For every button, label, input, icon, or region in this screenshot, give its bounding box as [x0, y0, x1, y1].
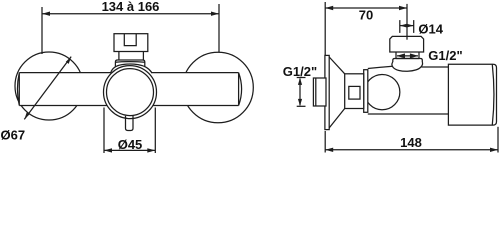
bonnet neck top line — [368, 66, 393, 68]
dimension 148 : left extension line — [324, 131, 326, 153]
svg-text:70: 70 — [359, 7, 373, 22]
G1/2 left: top tick — [297, 77, 306, 79]
tube bottom line left segment — [19, 105, 107, 107]
G1/2 left: vertical double arrow — [299, 79, 301, 106]
Ø45 extension left — [103, 108, 105, 154]
dimension 134 à 166 : right extension line — [218, 4, 220, 52]
svg-text:G1/2": G1/2" — [428, 48, 462, 63]
wall flange disc (side) — [325, 55, 329, 129]
svg-text:134 à 166: 134 à 166 — [102, 0, 160, 14]
tube right end cap — [239, 73, 242, 106]
dimension 134 à 166 : right arrowhead — [211, 12, 219, 16]
svg-text:Ø45: Ø45 — [118, 137, 143, 152]
handle dome / bonnet — [392, 62, 423, 71]
dimension 134 à 166 : left extension line — [41, 7, 43, 54]
svg-text:G1/2": G1/2" — [283, 64, 317, 79]
tube body (white fill occludes flange circles) — [17, 73, 241, 106]
handle head (side) — [390, 36, 424, 52]
wall flange circle left (Ø67) — [15, 52, 83, 120]
handle base lip — [115, 60, 144, 67]
handle head (front) — [114, 34, 148, 52]
handle head notch — [124, 34, 136, 46]
dimension 70 : left extension line — [324, 2, 326, 55]
Ø14 double arrow — [400, 25, 414, 27]
connection washer — [364, 70, 368, 113]
handle base band — [393, 59, 423, 63]
tube bottom line right segment — [153, 105, 239, 107]
inlet pipe thread line — [315, 78, 317, 106]
collar internal double arrow — [397, 55, 418, 57]
svg-text:148: 148 — [400, 135, 422, 150]
nut inner square — [349, 86, 360, 99]
flange cone bottom edge — [329, 109, 345, 128]
dimension 134 à 166 : left arrowhead — [42, 12, 50, 16]
Ø14 dimension ticks — [399, 20, 401, 33]
dimension 134 à 166 : line — [42, 13, 219, 15]
spout end cap inner curve — [492, 65, 494, 125]
svg-text:Ø14: Ø14 — [418, 21, 443, 36]
handle base lip rim line — [115, 61, 144, 64]
wall flange circle right (Ø67) — [183, 52, 254, 123]
Ø45 dimension line — [104, 149, 155, 151]
tube top line left segment — [19, 72, 111, 74]
spout end cap — [448, 64, 496, 125]
body circle (side) — [365, 74, 400, 109]
G1/2 left: bottom tick — [297, 105, 306, 107]
handle collar band — [396, 52, 419, 59]
dimension 148 : line — [325, 149, 498, 151]
svg-text:Ø67: Ø67 — [1, 127, 26, 142]
inlet pipe G1/2 — [313, 78, 326, 106]
tube top line right segment — [151, 72, 239, 74]
cartridge top bell arc — [111, 64, 152, 72]
spout top line — [422, 66, 449, 68]
handle neck — [119, 52, 143, 61]
outlet tab bottom — [126, 116, 134, 131]
Ø45 extension right — [154, 108, 156, 154]
flange cone top edge — [329, 57, 345, 74]
cartridge inner circle — [107, 69, 154, 116]
tube left end cap — [17, 73, 19, 106]
dimension 70 : right extension line — [406, 4, 408, 40]
dimension 148 : right extension line — [497, 127, 499, 153]
connection nut — [345, 74, 364, 109]
Ø67 diagonal diameter arrow — [24, 57, 71, 120]
spout bottom line — [368, 113, 449, 115]
cartridge outer circle — [104, 66, 157, 119]
dimension 70 : line — [325, 7, 407, 9]
